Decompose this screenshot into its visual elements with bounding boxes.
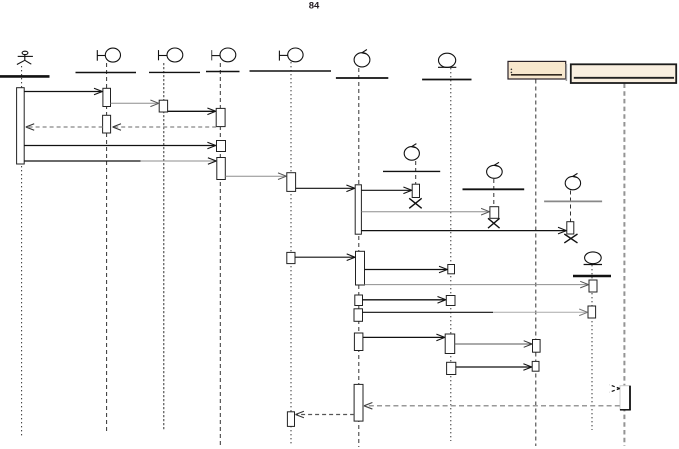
message m8 L4 to L5 [296, 185, 355, 192]
boundary icon B1 [97, 48, 120, 62]
lifeline L2 [163, 63, 165, 430]
activation A1a on L1 [103, 88, 111, 106]
object box H8 [571, 64, 676, 83]
message m6 L0 to L3 [24, 158, 216, 165]
message m4b dashed return L1 to L0 [26, 124, 103, 131]
activation A4c on L4 [287, 412, 294, 427]
message m9 L5 to C1 [361, 187, 411, 194]
boundary icon B3 [212, 48, 236, 62]
activation AC4a on C4 [589, 280, 597, 292]
activation AC3 on C3 [567, 222, 574, 234]
entity icon C4 [584, 252, 602, 265]
message m18 L6 to L7 [455, 341, 532, 348]
C1 name underline [383, 170, 440, 172]
B2 name underline [149, 71, 200, 73]
entity icon H6 [438, 53, 456, 67]
activation A7b on L7 [532, 361, 539, 371]
destruction X3 on C3 [564, 234, 577, 243]
activation A3b on L3 [217, 141, 226, 152]
lifeline C3 [570, 191, 572, 222]
message m13 L5 to L6 [365, 266, 448, 273]
activation A7a on L7 [533, 340, 541, 353]
message m4a dashed return L3 to L1 [113, 124, 217, 131]
H6 name underline [422, 79, 471, 81]
activation A6c on L6 [445, 334, 455, 354]
activation A3a on L3 [216, 108, 225, 126]
B4 name underline [250, 70, 332, 72]
lifeline L7 [535, 80, 537, 447]
boundary icon B2 [159, 48, 183, 62]
lifeline C4 [591, 265, 593, 430]
H5 name underline [336, 77, 388, 79]
control icon C1 [404, 144, 419, 161]
message m22 dashed return L5 to L4 [296, 411, 355, 418]
message m14 L5 to C4 [365, 281, 589, 288]
lifeline C2 [493, 179, 495, 207]
B1 name underline [76, 72, 137, 74]
svg-text:84: 84 [309, 1, 320, 12]
actor name underline [0, 75, 50, 78]
message m10 L5 to C2 [361, 208, 489, 215]
activation A5b on L5 [356, 251, 365, 285]
lifeline L0 actor [21, 66, 23, 437]
activation A2 on L2 [159, 100, 167, 112]
activation A5d on L5 [354, 309, 363, 322]
activation AC1 on C1 [412, 184, 419, 197]
actor figure [17, 51, 33, 64]
message m20 found dashed arrow into L8 [610, 385, 620, 392]
message m19 L6 to L7 [456, 364, 532, 371]
activation A1b on L1 [103, 115, 111, 133]
message m17 L5 to L6 [363, 334, 445, 341]
lifeline L5 [358, 68, 360, 447]
lifeline C1 [415, 161, 417, 184]
lifeline L4 [290, 62, 292, 446]
activation A8 on L8 [620, 386, 631, 410]
message m12 L4 to L5 [295, 254, 355, 261]
activation A3c on L3 [217, 158, 226, 180]
activation A6d on L6 [447, 362, 456, 374]
activation A5a on L5 [355, 185, 361, 234]
activation A5f on L5 [354, 384, 363, 421]
C2 name underline [463, 188, 525, 190]
message m11 L5 to C3 [361, 227, 566, 234]
activation A5e on L5 [354, 333, 363, 351]
lifeline L8 [623, 84, 625, 447]
message m5 L0 to L3 [24, 142, 216, 149]
message m16 L5 to C4 [363, 309, 588, 316]
message m15 L5 to L6 [363, 297, 446, 304]
boundary icon B4 [279, 48, 303, 62]
control icon C3 [565, 173, 580, 189]
C3 name underline [544, 200, 602, 202]
control icon C2 [487, 162, 503, 178]
activation A0 on L0 [17, 88, 25, 164]
message m1 L0 to L1 [24, 88, 102, 95]
object box H7 [508, 61, 566, 81]
destruction X1 on C1 [409, 198, 422, 208]
destruction X2 on C2 [488, 218, 500, 228]
control icon H5 [354, 50, 370, 67]
activation A5c on L5 [355, 295, 363, 306]
message m3 L2 to L3 [168, 108, 216, 115]
activation A4b on L4 [287, 252, 295, 263]
activation A6b on L6 [446, 296, 455, 306]
C4 name underline [573, 275, 611, 278]
message m21 dashed return L8 to L5 [364, 403, 620, 410]
lifeline L6 [450, 68, 452, 441]
message m2 L1 to L2 [111, 100, 159, 107]
B3 name underline [206, 71, 240, 73]
activation AC4b on C4 [588, 306, 596, 318]
activation A6a on L6 [448, 265, 455, 274]
activation AC2 on C2 [490, 207, 499, 219]
lifeline L1 [106, 63, 108, 432]
activation A4a on L4 [287, 173, 296, 192]
message m7 L3 to L4 [225, 173, 286, 180]
lifeline L3 [219, 63, 221, 446]
